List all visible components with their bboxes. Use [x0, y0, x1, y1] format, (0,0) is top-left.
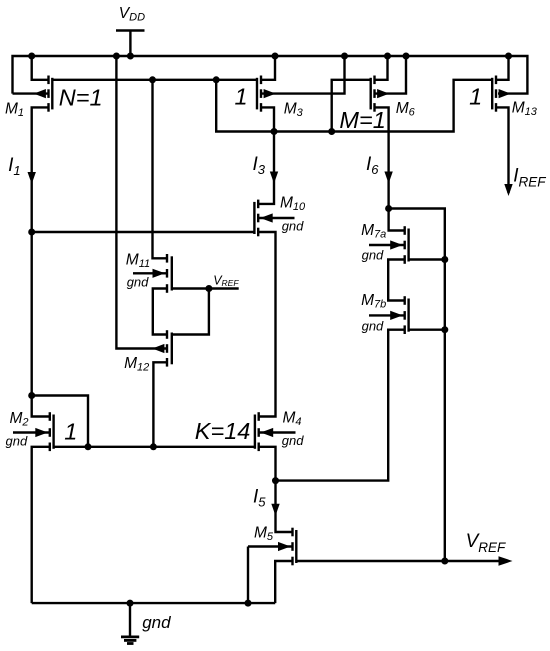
svg-text:M=1: M=1	[339, 107, 385, 133]
svg-text:gnd: gnd	[362, 318, 384, 333]
svg-text:1: 1	[64, 419, 77, 445]
svg-text:gnd: gnd	[6, 434, 28, 449]
svg-text:gnd: gnd	[127, 274, 149, 289]
svg-text:K=14: K=14	[195, 418, 251, 444]
svg-text:gnd: gnd	[362, 248, 384, 263]
svg-text:N=1: N=1	[59, 84, 103, 110]
svg-text:gnd: gnd	[142, 613, 171, 632]
svg-text:1: 1	[235, 84, 248, 110]
svg-text:gnd: gnd	[282, 218, 304, 233]
svg-text:gnd: gnd	[282, 433, 304, 448]
svg-text:1: 1	[469, 83, 482, 109]
